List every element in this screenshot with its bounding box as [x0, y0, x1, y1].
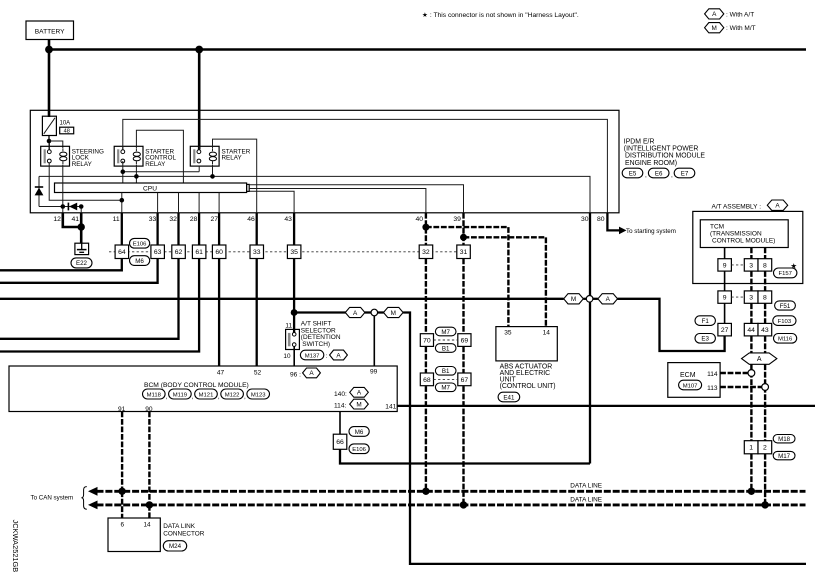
- wire: switch pin 10 to BCM pin 96: [293, 346, 295, 366]
- svg-text:E3: E3: [701, 336, 709, 343]
- connector pin box 8 (F51): [758, 291, 772, 303]
- wire: SCR contact to pin 80 (to starting system): [123, 119, 608, 212]
- wire: connector 9 row1 to row2: [724, 271, 726, 291]
- svg-text:M118: M118: [147, 392, 162, 398]
- CAN wires 44/43 to badge A: [750, 336, 752, 353]
- svg-text:E7: E7: [681, 170, 689, 177]
- svg-text:DATA LINE: DATA LINE: [570, 496, 602, 503]
- connector ovals M118 M119 M121 M122 M123: [143, 389, 166, 399]
- svg-text:M122: M122: [225, 392, 240, 398]
- svg-text:96 :: 96 :: [290, 371, 301, 378]
- svg-text:(INTELLIGENT POWER: (INTELLIGENT POWER: [624, 146, 699, 153]
- connector pin box 32: [419, 245, 433, 259]
- svg-text:ENGINE ROOM): ENGINE ROOM): [625, 160, 677, 167]
- CAN wire: ECM 113 to CAN-L: [720, 386, 761, 388]
- net: relay coil return line to pin 30: [39, 176, 590, 212]
- svg-text:39: 39: [453, 216, 461, 223]
- connector pin box 8 (F157): [758, 259, 772, 271]
- svg-text:,: ,: [244, 394, 246, 401]
- connector oval M6 (row): [130, 256, 150, 266]
- wire: CPU to IPDM pin 11: [121, 193, 123, 213]
- svg-text:: With A/T: : With A/T: [726, 11, 754, 18]
- svg-text:67: 67: [461, 377, 469, 384]
- connector pin box 35: [287, 245, 301, 259]
- wire: battery bus to starter relay contact: [198, 50, 201, 150]
- junction: ground merge: [78, 223, 85, 230]
- connector oval F1: [695, 316, 715, 326]
- svg-text:SWITCH): SWITCH): [302, 341, 330, 348]
- svg-text:M123: M123: [251, 392, 266, 398]
- svg-text:27: 27: [721, 327, 729, 334]
- wire: A/T branch to TCM connector 27: [618, 299, 725, 351]
- CAN wire pair below badge A: [750, 364, 752, 440]
- wire: IPDM pin 30 down through option circle: [589, 213, 591, 296]
- svg-text:41: 41: [72, 216, 80, 223]
- svg-text:IPDM E/R: IPDM E/R: [624, 138, 655, 145]
- svg-text:CPU: CPU: [143, 185, 157, 192]
- connector pin box 69: [458, 334, 471, 347]
- connector oval E106 (row): [130, 238, 150, 248]
- connector pin box 44: [744, 323, 758, 336]
- svg-text:M7: M7: [441, 329, 450, 336]
- connector pin box 2: [758, 441, 772, 454]
- junction: A/T shift node: [291, 309, 298, 316]
- svg-text:32: 32: [169, 216, 177, 223]
- wire: battery to fuse: [48, 40, 51, 117]
- connector oval B1 (lower): [435, 367, 456, 376]
- junction: pin39 wire on data line 2: [460, 501, 467, 508]
- svg-text:(CONTROL UNIT): (CONTROL UNIT): [500, 383, 556, 390]
- wire: pin 33 through connector 63 to left: [156, 213, 158, 245]
- wire: CPU output 2 to pin 40: [249, 189, 426, 213]
- connector pin box 33: [250, 245, 264, 259]
- svg-text:47: 47: [217, 369, 225, 376]
- svg-text:43: 43: [284, 216, 292, 223]
- svg-text:DATA LINE: DATA LINE: [570, 483, 602, 490]
- CAN wire: pin 40 branch to ABS pin 35: [425, 213, 427, 245]
- svg-text:F103: F103: [778, 319, 792, 325]
- junction: fuse output node: [47, 139, 52, 144]
- svg-text:DISTRIBUTION MODULE: DISTRIBUTION MODULE: [625, 153, 705, 160]
- svg-text:: With M/T: : With M/T: [726, 25, 756, 32]
- svg-text:141: 141: [385, 404, 396, 411]
- svg-text:B1: B1: [442, 345, 450, 352]
- connector oval M7 (lower): [435, 383, 456, 392]
- connector oval E22: [71, 258, 92, 268]
- svg-text:46: 46: [247, 216, 255, 223]
- wire: SCR contact bottom / SR contact bottom link: [122, 161, 124, 183]
- svg-text:,: ,: [166, 394, 168, 401]
- svg-text:10A: 10A: [60, 120, 71, 126]
- svg-text:E5: E5: [629, 170, 637, 177]
- svg-text:DATA LINK: DATA LINK: [163, 523, 195, 530]
- svg-text:A: A: [712, 11, 717, 18]
- connector oval E41: [498, 392, 520, 402]
- svg-text:60: 60: [215, 249, 223, 256]
- connector pin box 66: [333, 434, 347, 449]
- svg-text:E106: E106: [352, 447, 366, 453]
- svg-text:E6: E6: [655, 170, 663, 177]
- junction: connector2 on data line 2: [761, 501, 768, 508]
- wire: pin 28 through connector 61 to left: [198, 213, 200, 245]
- svg-text:M18: M18: [778, 436, 791, 443]
- junction: BCM 90 on data line 2: [146, 501, 153, 508]
- svg-text:32: 32: [422, 249, 430, 256]
- svg-text:CONNECTOR: CONNECTOR: [163, 530, 204, 537]
- junction: pin 41 node: [79, 204, 84, 209]
- connector pin box 67: [458, 373, 471, 386]
- CAN wire: pin 40 down through connectors to data line 1: [425, 259, 427, 334]
- svg-text:10: 10: [283, 353, 291, 360]
- svg-text:M: M: [356, 401, 361, 408]
- A/T assembly outer box: [693, 211, 803, 283]
- connector pin box 31: [457, 245, 471, 259]
- junction: pin 11 node: [120, 198, 125, 203]
- svg-text:28: 28: [190, 216, 198, 223]
- CAN wires to 44/43: [750, 303, 752, 323]
- svg-text:30: 30: [581, 216, 589, 223]
- connector oval E6: [648, 168, 669, 178]
- battery B1: [26, 21, 74, 40]
- connector oval M7 (upper): [435, 327, 456, 336]
- CAN wire: connector 2 to data line 2: [764, 454, 766, 505]
- legend badge M = With M/T: [705, 23, 724, 33]
- arrowhead: data line 2 to CAN system: [88, 501, 98, 510]
- wire: connector 9 to 27: [724, 303, 726, 323]
- svg-text:48: 48: [64, 129, 70, 135]
- CAN wire: TCM pin 3 (row1): [750, 248, 752, 259]
- wire: SL relay contact to CPU/pin 11 node: [49, 163, 122, 201]
- svg-text:35: 35: [504, 330, 512, 337]
- svg-text:To CAN system: To CAN system: [31, 495, 74, 502]
- connector pin box 3 (F157): [744, 259, 758, 271]
- svg-text:M119: M119: [173, 392, 187, 398]
- data link connector box M24: [108, 518, 160, 552]
- connector oval E3: [695, 334, 715, 344]
- svg-text:8: 8: [763, 295, 767, 302]
- svg-text:A: A: [775, 203, 780, 210]
- wire: pin 11 through connector 64 to left: [121, 213, 123, 245]
- svg-text:61: 61: [195, 249, 203, 256]
- svg-text:,: ,: [671, 172, 673, 179]
- connector oval F103: [773, 316, 796, 326]
- svg-text:11: 11: [285, 323, 292, 330]
- option junction circle (pin30 node): [583, 298, 586, 300]
- svg-text:,: ,: [645, 172, 647, 179]
- option circle on CAN-H: [748, 370, 755, 377]
- wire: pin 27 through connector 60 to BCM pin 47: [218, 213, 220, 245]
- svg-text:A/T ASSEMBLY :: A/T ASSEMBLY :: [712, 203, 762, 210]
- wire: battery positive bus: [48, 48, 806, 51]
- svg-text:A: A: [309, 370, 314, 377]
- svg-text:F51: F51: [780, 303, 791, 310]
- CAN bus data line 2: [97, 503, 806, 506]
- svg-text:M6: M6: [355, 429, 364, 436]
- dotted link 9-3 row2: [731, 296, 744, 298]
- option circle on CAN-L: [762, 384, 769, 391]
- connector oval E5: [622, 168, 643, 178]
- svg-text:8: 8: [763, 262, 767, 269]
- wire: SCR coil top to CPU: [136, 130, 183, 183]
- connector pin box 27: [718, 323, 732, 336]
- connector pin box 62: [172, 245, 186, 259]
- svg-text:B1: B1: [442, 368, 450, 375]
- svg-text:RELAY: RELAY: [72, 161, 93, 168]
- svg-text:M: M: [571, 296, 576, 303]
- svg-text:14: 14: [143, 521, 151, 528]
- svg-text:11: 11: [113, 216, 120, 223]
- svg-text:A: A: [353, 310, 358, 317]
- brace: to CAN system: [81, 487, 86, 510]
- ABS actuator and electric unit box: [496, 327, 557, 361]
- connector pin box 61: [192, 245, 206, 259]
- connector pin box 64: [115, 245, 129, 259]
- junction: SCR contact node: [121, 169, 126, 174]
- connector pin box 60: [212, 245, 226, 259]
- svg-text:114:: 114:: [334, 402, 347, 409]
- connector oval F157 with star: [774, 268, 797, 278]
- wire: pin 80 to starting system arrow: [607, 213, 619, 231]
- svg-text:M: M: [712, 25, 717, 32]
- IPDM E/R module box: [30, 110, 619, 213]
- wire: pin 32 through connector 62 to left: [177, 213, 179, 245]
- svg-text:14: 14: [543, 330, 551, 337]
- relay K3 starter relay: [190, 146, 219, 166]
- svg-text:52: 52: [254, 369, 262, 376]
- svg-text:70: 70: [423, 337, 431, 344]
- svg-text:,: ,: [192, 394, 194, 401]
- svg-text:A: A: [606, 296, 611, 303]
- svg-text:E22: E22: [76, 260, 88, 267]
- svg-text:113: 113: [707, 385, 718, 392]
- CAN wire: ECM 114 to CAN-H: [720, 372, 748, 374]
- CAN wires row1 to row2: [750, 271, 752, 291]
- wire: M branch down to bottom right: [403, 313, 806, 564]
- connector oval M24: [163, 541, 186, 551]
- wire: CPU to pin 28: [198, 193, 200, 213]
- connector oval M107: [679, 380, 702, 390]
- svg-text:F157: F157: [778, 271, 791, 277]
- svg-text:RELAY: RELAY: [222, 155, 243, 162]
- wire: BCM 141 output line to right edge: [397, 405, 815, 407]
- legend badge A = With A/T: [705, 9, 724, 19]
- svg-text:★: ★: [790, 261, 797, 270]
- connector oval M18: [773, 435, 795, 443]
- junction: connector1 on data line 1: [748, 488, 755, 495]
- dotted link 70-69: [434, 339, 458, 341]
- svg-text:68: 68: [423, 377, 431, 384]
- svg-text:★ : This connector is not show: ★ : This connector is not shown in "Harn…: [422, 11, 579, 19]
- wire: pin 12 / pin 41 to ground: [63, 213, 81, 227]
- svg-text:M17: M17: [778, 453, 791, 460]
- badge A (M137 connector): [330, 350, 348, 360]
- CAN wire: pin 39 branch to ABS pin 14: [462, 213, 464, 245]
- svg-text:CONTROL MODULE): CONTROL MODULE): [712, 238, 775, 245]
- connector pin box 3 (F51): [744, 291, 758, 303]
- wire: CPU output 1 to pin 39: [249, 185, 463, 213]
- svg-text:114: 114: [707, 371, 718, 378]
- badge A on A/T branch: [598, 294, 618, 304]
- svg-text:64: 64: [118, 249, 126, 256]
- svg-text:M6: M6: [135, 258, 144, 265]
- junction: pin40 wire on data line 1: [422, 488, 429, 495]
- svg-text:3: 3: [749, 262, 753, 269]
- diode D1: [38, 176, 40, 206]
- junction: BCM 91 on data line 1: [118, 488, 125, 495]
- connector oval M6 (66): [349, 427, 369, 437]
- ground symbol E22: [75, 243, 89, 254]
- wire: pin 46 through connector 33 to BCM pin 52: [256, 213, 258, 245]
- connector oval M137: [300, 350, 323, 360]
- svg-text:69: 69: [461, 337, 469, 344]
- svg-text:1: 1: [749, 445, 753, 452]
- badge A (shift selector branch): [345, 307, 365, 317]
- dotted connector boundary row: [109, 251, 470, 253]
- badge A (CAN merge, wide): [742, 353, 777, 364]
- svg-text:M121: M121: [199, 392, 214, 398]
- CAN bus data line 1: [97, 490, 806, 493]
- connector oval B1 (upper): [435, 344, 456, 353]
- svg-text:JCKWA2521GB: JCKWA2521GB: [11, 520, 20, 573]
- svg-text:M24: M24: [169, 543, 182, 550]
- diode D2: [67, 203, 69, 211]
- junction: pin 40 branch: [422, 224, 429, 231]
- svg-text:140:: 140:: [334, 391, 347, 398]
- fuse 10A #48: [42, 116, 56, 135]
- svg-text:M116: M116: [778, 337, 793, 343]
- svg-text:A: A: [336, 352, 341, 359]
- svg-text:BATTERY: BATTERY: [35, 29, 65, 36]
- connector pin box 9 (F157): [718, 259, 732, 271]
- junction: battery bus left: [45, 46, 53, 54]
- CPU box: [55, 183, 247, 193]
- arrowhead: data line 1 to CAN system: [88, 487, 98, 496]
- junction: SR coil on return line: [210, 174, 215, 179]
- wire: pin 43 through connector 35 to A/T node: [293, 213, 295, 245]
- svg-text:6: 6: [121, 521, 125, 528]
- svg-text:M137: M137: [305, 353, 320, 359]
- svg-text:33: 33: [253, 249, 261, 256]
- svg-text:E41: E41: [503, 394, 515, 401]
- svg-text:E106: E106: [133, 242, 147, 248]
- wire: SR coil top to pin 46: [213, 139, 257, 213]
- svg-text:M107: M107: [683, 383, 698, 389]
- svg-text:3: 3: [749, 295, 753, 302]
- svg-text::: :: [326, 353, 328, 360]
- svg-text:BCM (BODY CONTROL MODULE): BCM (BODY CONTROL MODULE): [144, 382, 249, 389]
- svg-text:33: 33: [149, 216, 157, 223]
- svg-text:9: 9: [723, 262, 727, 269]
- svg-text:12: 12: [53, 216, 61, 223]
- svg-text:31: 31: [460, 249, 468, 256]
- connector pin box 63: [151, 245, 165, 259]
- CAN wire: BCM pin 91 to data line 1: [121, 412, 123, 492]
- svg-text:,: ,: [218, 394, 220, 401]
- junction: pin 12 node: [61, 204, 66, 209]
- dotted link 68-67: [434, 378, 458, 380]
- svg-text:9: 9: [723, 295, 727, 302]
- ECM box: [668, 363, 720, 398]
- svg-text:80: 80: [597, 216, 605, 223]
- svg-text:62: 62: [175, 249, 183, 256]
- CAN wire: data line to DLC pin 6: [121, 491, 123, 518]
- relay K2 starter control relay: [114, 146, 143, 166]
- svg-text:2: 2: [763, 445, 767, 452]
- BCM body control module box: [9, 366, 397, 412]
- A/T shift selector detention switch M137: [293, 313, 295, 334]
- CAN wire: BCM pin 90 to data line 2: [148, 412, 150, 505]
- relay K1 steering lock relay: [41, 146, 70, 166]
- svg-text:40: 40: [416, 216, 424, 223]
- junction: battery bus at starter relay feed: [195, 46, 203, 54]
- badge A (A/T assembly): [767, 200, 787, 210]
- net: SL coil / diode ground line: [39, 206, 81, 208]
- svg-text:To starting system: To starting system: [626, 228, 676, 235]
- connector oval E7: [674, 168, 695, 178]
- connector oval M17: [773, 451, 795, 459]
- badge M on M/T line: [564, 294, 584, 304]
- wire: relay feed stubs: [48, 146, 50, 150]
- option junction circle to BCM 99: [365, 311, 371, 313]
- svg-text:35: 35: [290, 249, 298, 256]
- svg-text:63: 63: [154, 249, 162, 256]
- wire: CPU to pin 27: [218, 193, 220, 213]
- TCM box: [700, 220, 788, 248]
- CAN wire: data line to DLC pin 14: [148, 505, 150, 518]
- wire: CPU to pin 32: [178, 193, 180, 213]
- svg-text:44: 44: [747, 327, 755, 334]
- wire: TCM to connector 9 (row1): [724, 248, 726, 259]
- wire: fuse to steering lock relay: [48, 136, 50, 142]
- svg-text:27: 27: [211, 216, 219, 223]
- connector oval M116: [774, 334, 797, 344]
- CAN wire: pin 39 down through connectors to data line 2: [462, 259, 464, 334]
- connector pin box 43: [758, 323, 772, 336]
- svg-text:99: 99: [370, 368, 378, 375]
- wire: CPU to pin 33: [157, 193, 159, 213]
- svg-text:43: 43: [761, 327, 769, 334]
- wire: M/T signal line to left (off page): [0, 298, 564, 300]
- wire: option circle down to BCM pin 99: [373, 316, 375, 366]
- junction: SCR coil on return line: [134, 174, 139, 179]
- junction: pin 39 branch: [460, 234, 467, 241]
- wire: fuse node to SL relay coil: [49, 141, 63, 148]
- svg-text:ECM: ECM: [680, 372, 696, 379]
- connector oval F51: [775, 301, 796, 310]
- connector pin box 68: [420, 373, 433, 386]
- connector pin box 70: [420, 334, 433, 347]
- wire: CPU output 3 to pin 43: [249, 191, 294, 213]
- dotted link 9-3 row1: [731, 264, 744, 266]
- svg-text:A: A: [757, 356, 762, 363]
- badge M (shift selector branch): [384, 307, 404, 317]
- wire: BCM to connector 66: [339, 412, 341, 435]
- svg-text:A: A: [357, 390, 362, 397]
- svg-text:F1: F1: [702, 318, 710, 325]
- svg-text:M: M: [391, 310, 396, 317]
- wire: node to badge A: [294, 311, 345, 313]
- CAN wire: TCM pin 8 (row1): [764, 248, 766, 259]
- svg-text:66: 66: [336, 439, 344, 446]
- connector oval E106 (66): [349, 444, 369, 454]
- svg-text:M7: M7: [441, 385, 450, 392]
- svg-text:RELAY: RELAY: [145, 161, 166, 168]
- wire: BCM 66 connector to option node: [340, 449, 590, 463]
- connector pin box 9 (F51): [718, 291, 732, 303]
- connector pin box 1: [744, 441, 758, 454]
- CAN wire: connector 1 to data line 1: [750, 454, 752, 492]
